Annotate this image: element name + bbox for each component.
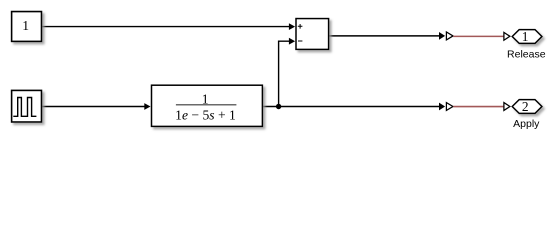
svg-text:1: 1 — [22, 18, 29, 33]
minus sign — [298, 40, 302, 42]
pulse generator block — [12, 90, 42, 122]
constant block — [12, 12, 42, 42]
open arrow after Apply line end — [446, 103, 453, 111]
junction dot on transfer function output — [276, 104, 281, 109]
red connector line to Apply outport — [453, 106, 504, 108]
svg-text:Release: Release — [507, 48, 546, 60]
pulse waveform icon — [13, 98, 36, 117]
fraction bar — [176, 104, 237, 106]
open arrow into Release outport — [504, 32, 510, 40]
wire constant to sum + input — [42, 23, 296, 30]
outport 1 hexagon — [512, 29, 542, 44]
red connector line to Release outport — [453, 35, 504, 37]
plus sign — [298, 24, 303, 29]
wire branch up to sum - input — [279, 38, 296, 107]
wire pulse generator to transfer function — [42, 103, 151, 110]
wire transfer function output to Apply arrow — [262, 103, 445, 111]
wire sum output to Release arrow — [329, 32, 446, 40]
svg-text:2: 2 — [522, 99, 529, 114]
open arrow into Apply outport — [504, 103, 510, 111]
svg-text:1: 1 — [522, 29, 529, 44]
open arrow after Release line end — [446, 32, 453, 40]
sum block (subtract) — [296, 19, 329, 50]
svg-text:1e − 5s + 1: 1e − 5s + 1 — [175, 107, 236, 122]
svg-text:Apply: Apply — [513, 118, 540, 130]
outport 2 hexagon — [512, 99, 542, 114]
transfer function block: 1/(1e-5s+1) — [152, 85, 263, 126]
